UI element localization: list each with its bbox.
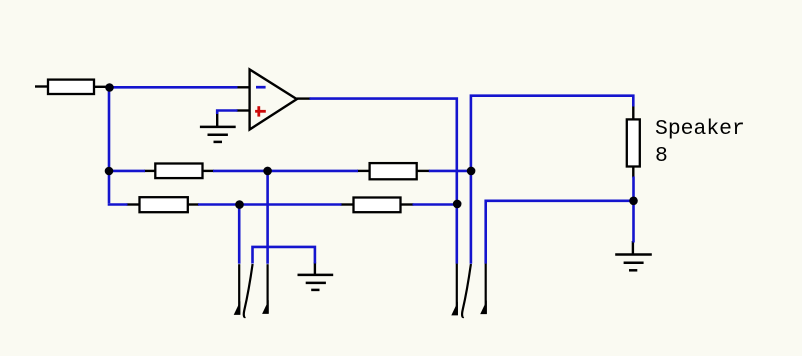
svg-text:8: 8: [655, 144, 668, 168]
svg-text:Speaker: Speaker: [655, 117, 745, 141]
